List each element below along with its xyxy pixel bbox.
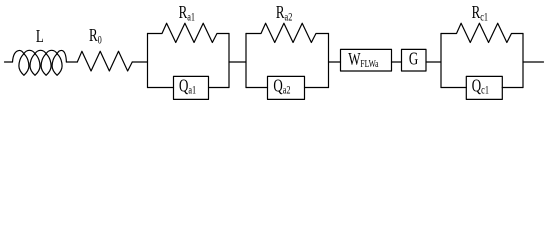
capacitor element Qa2 (CPE box) xyxy=(268,76,305,99)
wire: left input lead xyxy=(5,61,13,63)
wire: Warburg to G box xyxy=(392,61,402,63)
resistor R0 xyxy=(77,51,132,71)
wire: block 1 bottom rail right xyxy=(209,87,230,89)
svg-text:Qc1: Qc1 xyxy=(472,77,489,98)
wire: output lead xyxy=(523,61,544,63)
svg-text:L: L xyxy=(36,27,44,47)
svg-text:Ra2: Ra2 xyxy=(276,3,292,24)
block 3 right bar xyxy=(522,34,524,88)
resistor Ra1 (top rail of block 1) xyxy=(148,23,230,42)
svg-text:WFLWa: WFLWa xyxy=(348,50,378,70)
wire: block 3 bottom rail right xyxy=(502,87,523,89)
resistor Ra2 (top rail of block 2) xyxy=(246,23,329,42)
wire: block 1 to block 2 xyxy=(229,61,246,63)
wire: block 2 bottom rail right xyxy=(305,87,329,89)
Gerischer element G (box) xyxy=(402,49,427,71)
block 1 left bar xyxy=(147,34,149,88)
wire: R0 to block 1 xyxy=(132,61,147,63)
inductor L xyxy=(13,50,67,75)
wire: G box to block 3 xyxy=(426,61,441,63)
capacitor element Qc1 (CPE box) xyxy=(466,76,502,99)
wire: block 2 to Warburg box xyxy=(329,61,341,63)
block 2 right bar xyxy=(328,34,330,88)
block 1 right bar xyxy=(228,34,230,88)
svg-text:Ra1: Ra1 xyxy=(179,3,195,24)
wire: inductor to R0 xyxy=(66,61,77,63)
svg-text:Qa1: Qa1 xyxy=(179,77,196,98)
wire: block 2 bottom rail left xyxy=(246,87,268,89)
svg-text:R0: R0 xyxy=(89,26,102,47)
block 2 left bar xyxy=(245,34,247,88)
wire: block 1 bottom rail left xyxy=(148,87,174,89)
svg-text:Rc1: Rc1 xyxy=(472,3,488,24)
capacitor element Qa1 (CPE box) xyxy=(174,76,209,99)
resistor Rc1 (top rail of block 3) xyxy=(441,23,523,42)
wire: block 3 bottom rail left xyxy=(441,87,466,89)
Warburg element W_FLWa (box) xyxy=(341,49,392,71)
block 3 left bar xyxy=(440,34,442,88)
svg-text:Qa2: Qa2 xyxy=(273,77,290,98)
svg-text:G: G xyxy=(409,50,418,70)
